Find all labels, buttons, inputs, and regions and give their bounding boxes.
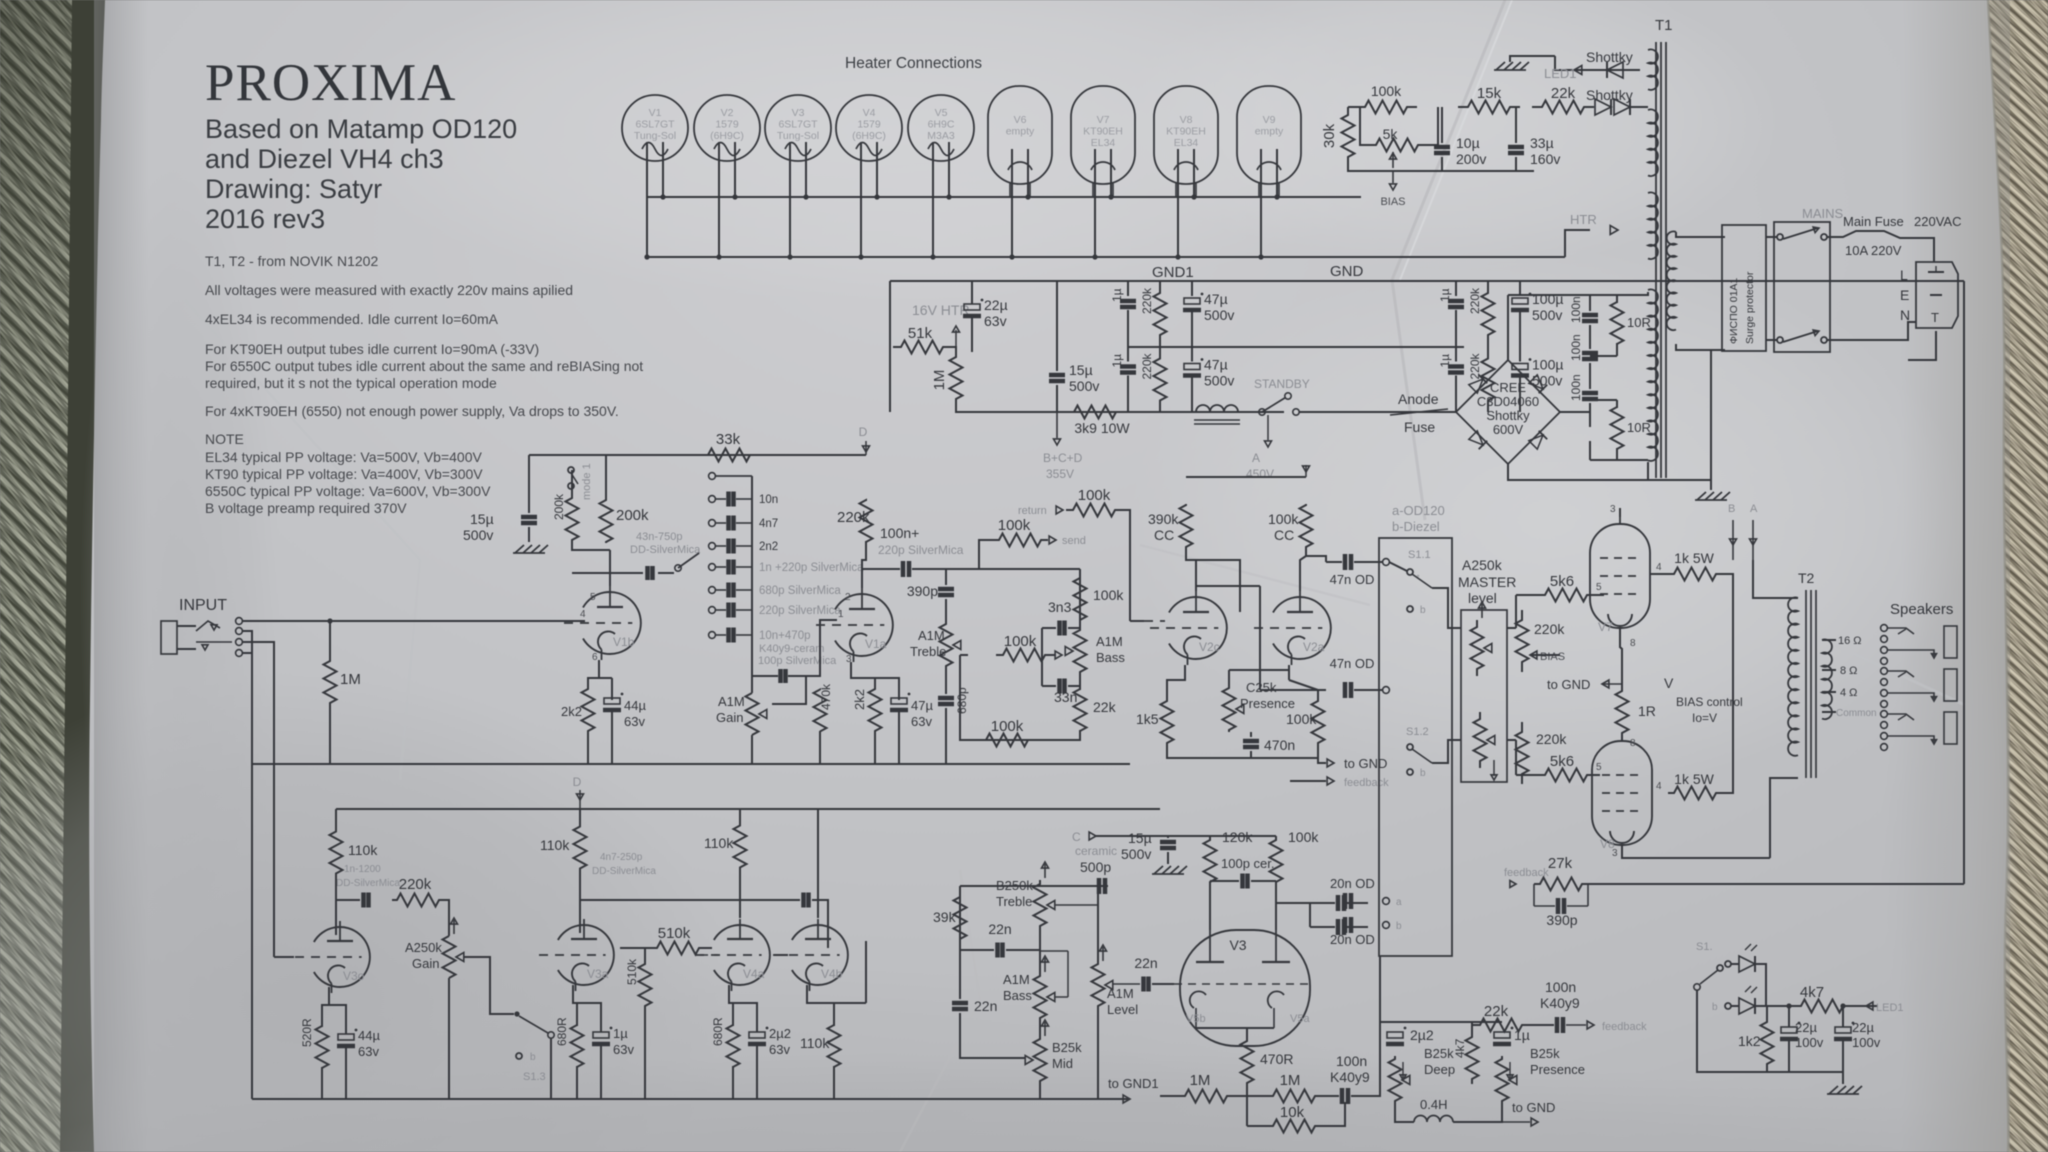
22n2 top wire [959, 950, 961, 999]
V4a plate up [739, 870, 741, 918]
psu mid rail [1128, 346, 1464, 348]
svg-text:200v: 200v [1456, 151, 1486, 167]
svg-text:63v: 63v [624, 714, 645, 729]
capacitor 100n snubber3 [1582, 391, 1598, 396]
heater wires from tubes to buses [646, 142, 648, 257]
bank terminal 2n2 [709, 543, 716, 550]
resistor 100k tone [1074, 578, 1087, 620]
svg-text:Shottky: Shottky [1586, 87, 1633, 103]
1M top [329, 621, 331, 660]
resistor 680R V3a [571, 1025, 584, 1067]
svg-text:4k7: 4k7 [1800, 984, 1824, 1001]
bank terminal 220p SilverMica [709, 607, 716, 614]
cap bank terminal top [709, 473, 716, 480]
capacitor mode cap 43n-750p [645, 566, 650, 580]
capacitor cap g1r2 [1184, 364, 1200, 370]
screen arrows [1732, 520, 1734, 560]
resistor 5k6 bottom [1540, 769, 1592, 782]
feedback in arrow [1510, 881, 1516, 888]
V4b plate wire [817, 809, 819, 918]
svg-text:30k: 30k [1321, 123, 1338, 148]
V7 top pin3 [1619, 508, 1621, 517]
svg-text:V3: V3 [1229, 937, 1246, 953]
1u V3a wires [577, 1003, 601, 1032]
capacitor bank cap 1n +220p SilverMica [726, 560, 731, 575]
capacitor 20n OD chB b [1336, 919, 1341, 935]
svg-text:100n+: 100n+ [880, 525, 919, 541]
A 450V arrow [1267, 415, 1269, 440]
PI supply arrow [1305, 465, 1307, 477]
capacitor 2u2 deep [1387, 1032, 1403, 1038]
svg-text:V3: V3 [792, 107, 805, 119]
svg-text:1M: 1M [1190, 1072, 1211, 1089]
4k7 to led1 arrow [1847, 1005, 1878, 1007]
bridge bottom wire [1508, 464, 1711, 480]
capacitor 100n snubber1 [1582, 313, 1598, 318]
svg-text:63v: 63v [911, 714, 932, 729]
svg-text:send: send [1062, 535, 1086, 547]
bank terminal 4n7 [709, 520, 716, 527]
diode LED b [1739, 998, 1755, 1014]
100k mid1 arrow [1055, 651, 1062, 659]
led b out [1755, 1005, 1797, 1007]
svg-text:47µ: 47µ [911, 698, 933, 713]
100k mid1 right [1052, 654, 1056, 656]
resistor 10R snubber2 [1611, 407, 1624, 449]
svg-text:MASTER: MASTER [1458, 574, 1516, 590]
svg-text:100n: 100n [1336, 1053, 1367, 1069]
svg-text:required, but it s not the typ: required, but it s not the typical opera… [205, 375, 497, 391]
capacitor 470n [1243, 739, 1259, 744]
tone 39k top [959, 886, 961, 896]
input contact4 wire [242, 652, 252, 654]
svg-text:220k: 220k [1536, 731, 1567, 747]
capacitor 100p cer cap [1240, 874, 1245, 889]
svg-text:1579: 1579 [857, 119, 881, 131]
svg-text:10µ: 10µ [1456, 135, 1480, 151]
22n out right [1152, 983, 1174, 985]
PI grid dash [1144, 620, 1165, 622]
capacitor 2u2 63v V4a [749, 1032, 765, 1038]
bass to 22k [1079, 674, 1081, 690]
resistor 100k return [1066, 504, 1122, 517]
svg-text:ceramic: ceramic [1075, 844, 1117, 858]
22k to cap [1523, 1024, 1554, 1026]
svg-text:33k: 33k [716, 431, 741, 448]
110k b1 wires [335, 809, 337, 830]
svg-text:680p: 680p [955, 687, 969, 714]
svg-text:Mid: Mid [1052, 1056, 1073, 1071]
1M bottom [329, 704, 331, 764]
svg-text:500p: 500p [1080, 859, 1111, 875]
deep bottom rail [1395, 1104, 1414, 1122]
BIAS arrow down [1392, 171, 1394, 183]
led dots [1786, 1003, 1791, 1008]
3n3 wires2 [1068, 627, 1080, 629]
S1.1 contact b [1407, 606, 1413, 612]
svg-text:15µ: 15µ [470, 511, 494, 527]
22n2 bottom [960, 1013, 1026, 1058]
mains switch box [1774, 222, 1830, 352]
svg-text:V2c: V2c [1199, 640, 1220, 654]
gain b bottom [448, 978, 450, 1099]
svg-text:A: A [1252, 451, 1260, 465]
4k7 wires [1471, 1022, 1473, 1032]
15u bottom [1056, 385, 1058, 412]
20n a right wire [1347, 902, 1368, 904]
resistor 15k [1458, 101, 1520, 114]
LED1 out arrow [1866, 1002, 1873, 1010]
tube V3 [765, 95, 831, 161]
resistor 100k send [992, 534, 1048, 547]
T2 primary bottom [1770, 778, 1798, 858]
svg-text:V7: V7 [1097, 114, 1110, 126]
svg-text:22µ: 22µ [1795, 1020, 1817, 1035]
510k left [620, 947, 652, 949]
capacitor 22u 100v b [1835, 1027, 1851, 1033]
snubber verticals [1589, 295, 1591, 311]
capacitor 47u 63v [891, 698, 907, 704]
mode switch [568, 467, 574, 473]
resistor 220k g2r1 [1482, 289, 1495, 339]
svg-text:S1.3: S1.3 [523, 1071, 546, 1083]
capacitor 22n level out [1141, 977, 1146, 992]
svg-text:1M: 1M [340, 671, 361, 688]
standby to anode fuse [1299, 411, 1456, 413]
svg-text:CC: CC [1154, 527, 1174, 543]
svg-text:680R: 680R [555, 1017, 569, 1046]
V1b cathode down [588, 660, 599, 688]
svg-text:470n: 470n [1264, 737, 1295, 753]
svg-text:51k: 51k [908, 325, 933, 342]
svg-text:8 Ω: 8 Ω [1840, 665, 1857, 677]
mode sw wire [658, 572, 674, 574]
svg-text:T1, T2 - from NOVIK N1202: T1, T2 - from NOVIK N1202 [205, 253, 378, 269]
svg-text:10k: 10k [1280, 1104, 1305, 1121]
S1.3 switch [514, 1011, 519, 1016]
V3 envelope [1180, 930, 1310, 1046]
svg-text:KT90EH: KT90EH [1166, 126, 1206, 138]
resistor 100k mid1 [996, 649, 1052, 662]
1M mid wire [1230, 1095, 1270, 1097]
svg-text:220p SilverMica: 220p SilverMica [878, 543, 964, 557]
gnd arrow wire [1318, 758, 1326, 763]
bank cap lead 4n7 [716, 522, 726, 524]
psu top bus [890, 280, 1964, 282]
1M to bottom [956, 404, 1048, 412]
1M top dot [327, 618, 332, 623]
svg-text:2k2: 2k2 [852, 689, 867, 710]
10k left wire [1246, 1096, 1248, 1126]
resistor 220k V1a [860, 500, 873, 542]
44u chB wires [329, 1005, 346, 1034]
resistor 22k tone [1074, 689, 1087, 731]
master bottom arrow [1493, 760, 1495, 776]
svg-text:1579: 1579 [715, 119, 739, 131]
ground chB ground [1154, 866, 1163, 874]
resistor 1R [1616, 690, 1629, 734]
T1 primary top [1676, 232, 1725, 237]
T2 sec taps [1822, 639, 1836, 641]
input shield wires [242, 631, 252, 764]
svg-text:b: b [1396, 921, 1402, 932]
bank cap lead 10n [716, 498, 726, 500]
capacitor 1u g2r1 [1448, 299, 1464, 304]
svg-text:CREE: CREE [1490, 380, 1526, 395]
15u to gnd [528, 527, 530, 542]
svg-text:200k: 200k [616, 507, 649, 524]
svg-text:empty: empty [1255, 126, 1284, 138]
svg-text:10A 220V: 10A 220V [1845, 243, 1902, 258]
V8 bottom pin3 [1622, 845, 1770, 858]
svg-text:DD-SilverMica: DD-SilverMica [336, 878, 400, 889]
potentiometer C25k Presence [1223, 686, 1236, 732]
110k b1 to plate [335, 875, 337, 935]
led b wires [1731, 1005, 1739, 1007]
svg-text:V2: V2 [721, 107, 734, 119]
390k to plate [1186, 548, 1196, 591]
svg-text:CC: CC [1274, 527, 1294, 543]
triode V3o [314, 927, 370, 987]
level bottom [1097, 1007, 1099, 1099]
svg-text:10R: 10R [1627, 420, 1651, 435]
svg-text:3k9 10W: 3k9 10W [1074, 420, 1130, 436]
svg-text:C25k: C25k [1246, 680, 1277, 695]
bias to winding [1630, 106, 1648, 108]
filter col wires g2r2 [1455, 347, 1457, 362]
master box [1461, 610, 1507, 782]
diode shottky D2 [1595, 99, 1611, 115]
svg-text:47n OD: 47n OD [1330, 572, 1375, 587]
svg-text:16 Ω: 16 Ω [1838, 635, 1862, 647]
V3 cathodes [1190, 991, 1206, 1008]
HV winding bottom wire [1647, 462, 1649, 480]
caps bottoms [1788, 1039, 1790, 1072]
100k tone to bass [1079, 620, 1081, 628]
ground T1 ground [1697, 492, 1706, 500]
chB cathode bottoms [321, 1067, 323, 1099]
bank terminal 1n +220p SilverMica [709, 564, 716, 571]
tube V4 [836, 95, 902, 161]
svg-text:100k: 100k [1371, 83, 1402, 99]
capacitor 15u 500v chB [1160, 840, 1176, 845]
capacitor coupling V3a [801, 893, 806, 908]
120k resistor [1204, 838, 1217, 884]
110k b2 to plate [579, 870, 581, 933]
svg-text:6SL7GT: 6SL7GT [635, 119, 675, 131]
20n terminal b [1383, 922, 1390, 929]
potentiometer B250k Treble [1034, 880, 1047, 930]
input vertical 2 [242, 642, 274, 766]
svg-text:390p: 390p [1546, 912, 1577, 928]
V4a 110k top [739, 809, 741, 823]
svg-text:V7: V7 [1598, 620, 1613, 634]
speaker jack 2 [1881, 668, 1888, 675]
svg-text:100µ: 100µ [1532, 357, 1563, 373]
fx vertical [1079, 569, 1081, 621]
svg-text:2k2: 2k2 [561, 704, 582, 719]
PI to gnd wire [1250, 751, 1252, 758]
svg-text:220k: 220k [1534, 621, 1565, 637]
svg-text:S1.1: S1.1 [1408, 549, 1431, 561]
svg-text:return: return [1018, 505, 1047, 517]
svg-text:8: 8 [1630, 638, 1636, 649]
bias caps bottom [1441, 157, 1443, 171]
svg-text:S1.2: S1.2 [1406, 726, 1429, 738]
bank bus [751, 476, 753, 676]
winding T2 primary [1788, 597, 1798, 755]
svg-text:110k: 110k [540, 837, 570, 853]
svg-text:100n: 100n [1569, 374, 1583, 401]
fuse wire [1827, 231, 1908, 238]
svg-text:1n +220p SilverMica: 1n +220p SilverMica [759, 562, 864, 574]
svg-text:For 4xKT90EH (6550) not enough: For 4xKT90EH (6550) not enough power sup… [205, 403, 619, 419]
bias net left [1348, 165, 1534, 171]
svg-text:2: 2 [845, 592, 851, 603]
T1 core [1655, 42, 1657, 478]
capacitor 1u 63v V3a [593, 1032, 609, 1038]
resistor 110k V4b [828, 1025, 841, 1067]
resistor 100k PI tail [1312, 700, 1325, 744]
svg-text:Bass: Bass [1096, 650, 1125, 665]
svg-text:100n: 100n [1569, 296, 1583, 323]
svg-text:100k: 100k [991, 718, 1024, 735]
potentiometer A1M Bass [1074, 628, 1087, 674]
sw1 to master [1432, 588, 1461, 628]
V4b cathode [807, 985, 834, 1026]
svg-text:20n OD: 20n OD [1330, 876, 1375, 891]
1k2 wires [1766, 1007, 1768, 1021]
S1.1 terminal a [1383, 559, 1390, 566]
capacitor 500p ceramic [1097, 878, 1102, 894]
heater bus to HTR [1565, 230, 1590, 257]
svg-text:100v: 100v [1795, 1035, 1824, 1050]
svg-text:220k: 220k [1140, 352, 1154, 379]
input to grid wire [242, 620, 585, 622]
svg-text:B250k: B250k [996, 878, 1033, 893]
svg-text:63v: 63v [358, 1044, 379, 1059]
svg-text:Gain: Gain [716, 710, 743, 725]
svg-text:V5a: V5a [1290, 1013, 1310, 1025]
svg-text:22µ: 22µ [1852, 1020, 1874, 1035]
svg-text:Surge protector: Surge protector [1744, 271, 1756, 344]
S1.1 switch [1407, 569, 1413, 575]
svg-text:1µ: 1µ [1438, 354, 1452, 368]
svg-text:390p: 390p [907, 583, 938, 599]
chB left vertical [273, 766, 275, 957]
capacitor 100n K40y9 fb [1555, 1017, 1560, 1033]
svg-text:43n-750p: 43n-750p [636, 531, 683, 543]
svg-text:K40y9: K40y9 [1330, 1069, 1370, 1085]
resistor 1k 5W top [1668, 568, 1722, 581]
V2c cathode [1167, 665, 1185, 700]
feedback wire [1290, 780, 1326, 782]
surge protector box [1722, 225, 1766, 351]
chB C rail wires [1160, 835, 1276, 837]
resistor 520R [316, 1026, 329, 1068]
svg-text:5k: 5k [1383, 126, 1399, 142]
V1a plate wire [862, 568, 900, 570]
svg-text:1R: 1R [1638, 703, 1656, 719]
svg-text:E: E [1900, 287, 1909, 303]
svg-text:feedback: feedback [1344, 777, 1389, 789]
svg-text:Treble: Treble [910, 644, 946, 659]
V7 cathode wire [1619, 628, 1621, 648]
bridge top to winding [1507, 295, 1509, 360]
svg-text:220k: 220k [837, 509, 870, 526]
svg-text:22µ: 22µ [984, 297, 1008, 313]
svg-text:470k: 470k [819, 683, 833, 710]
svg-text:44µ: 44µ [624, 698, 646, 713]
390p to pot [945, 599, 947, 623]
39k resistor [954, 896, 967, 940]
470R bottom [1246, 1084, 1248, 1096]
resistor 100k chB [1270, 838, 1283, 884]
20n a wires [1276, 902, 1335, 904]
svg-text:Heater Connections: Heater Connections [845, 55, 982, 72]
svg-text:500v: 500v [463, 527, 493, 543]
filter col wires g2r1 [1455, 281, 1457, 296]
svg-text:220k: 220k [1140, 287, 1154, 314]
resistor 5k pot element [1368, 139, 1426, 152]
200k pair bottoms [572, 543, 610, 550]
potentiometer B25k Deep [1389, 1056, 1402, 1104]
100p to grid node [788, 620, 837, 676]
svg-text:A250k: A250k [1462, 557, 1503, 573]
send arrow [1049, 536, 1056, 544]
220k to plate [862, 541, 866, 588]
svg-text:M3A3: M3A3 [927, 130, 955, 142]
left drop [528, 455, 530, 513]
triode V2c [1169, 597, 1227, 659]
svg-text:4: 4 [580, 609, 586, 620]
svg-text:V4: V4 [863, 107, 876, 119]
100p cer wires [1210, 880, 1239, 882]
V4a cathode [729, 985, 733, 1026]
capacitor 100n+220p coupling [901, 561, 906, 577]
resistor 51k [893, 341, 951, 354]
svg-text:5k6: 5k6 [1550, 573, 1574, 590]
capacitor 3n3 cap [1057, 621, 1062, 636]
V1a cath wires [875, 678, 899, 700]
mode cap [645, 568, 647, 578]
capacitor 22n chB 1 [995, 943, 1000, 958]
svg-text:For KT90EH output tubes idle c: For KT90EH output tubes idle current Io=… [205, 341, 539, 357]
led a wires [1731, 963, 1739, 965]
resistor 510k shunt [639, 962, 652, 1008]
resistor 470R [1241, 1040, 1254, 1084]
resistor 27k [1534, 878, 1588, 891]
resistor 100k bias [1355, 101, 1417, 114]
svg-text:1: 1 [838, 609, 844, 620]
led1 wire [1555, 56, 1640, 70]
capacitor 100n K40y9 chB [1340, 1088, 1345, 1104]
cathode tee [599, 677, 612, 679]
HV winding top wire [1508, 292, 1648, 295]
capacitor 390p [938, 587, 954, 592]
V3 plate wires [1209, 884, 1211, 930]
resistor 2k2 V1a [869, 688, 882, 732]
39k to 22n node [959, 940, 961, 950]
svg-text:Presence: Presence [1240, 696, 1295, 711]
PI top rail [1186, 476, 1306, 478]
triode V1a [835, 594, 893, 656]
resistor 220k master bottom [1516, 722, 1529, 784]
T2 common [1822, 711, 1836, 713]
svg-text:and Diezel VH4 ch3: and Diezel VH4 ch3 [205, 144, 444, 174]
svg-text:1M: 1M [1280, 1072, 1301, 1089]
svg-text:63v: 63v [984, 313, 1007, 329]
